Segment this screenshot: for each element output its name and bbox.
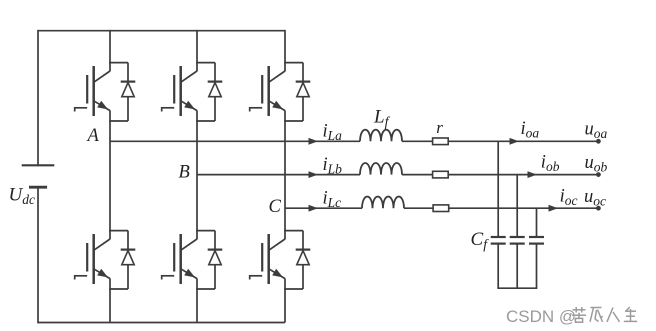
transistor VT4 (75, 230, 110, 284)
resistor r phase c (433, 205, 449, 212)
wire: phase b leg lower (bottom IGBT emitter to bottom bus) (196, 279, 198, 323)
DC source Udc positive plate (22, 164, 55, 166)
DC source Udc negative plate (29, 186, 47, 189)
node C / wire: phase c line from leg to inductor (285, 207, 362, 209)
wire: phase b leg middle (top IGBT emitter to bottom IGBT collector) (196, 111, 198, 232)
watermark 生 (624, 307, 637, 321)
capacitor Cf phase c (529, 236, 544, 238)
wire: phase b line inductor to resistor (402, 174, 449, 176)
freewheeling diode VD5 (284, 63, 310, 121)
current arrow i_oa (510, 138, 520, 145)
wire: phase a leg lower (bottom IGBT emitter to bottom bus) (109, 279, 111, 323)
transistor VT5 (250, 62, 285, 116)
wire: phase a line resistor to output terminal (448, 140, 598, 142)
transistor VT6 (162, 230, 197, 284)
current arrow i_Lb (309, 171, 319, 178)
freewheeling diode VD3 (196, 63, 222, 121)
wire: cap branch phase b lower lead (516, 244, 518, 289)
capacitor Cf phase a (491, 236, 506, 238)
wire: capacitor common bus (497, 287, 537, 289)
freewheeling diode VD2 (284, 231, 310, 289)
watermark 苦 (572, 307, 586, 322)
watermark 人 (607, 308, 620, 322)
output terminal dot u_oa (596, 139, 601, 144)
wire: phase a leg upper (bus to top IGBT) (109, 30, 111, 64)
inductor Lf phase c (362, 197, 404, 209)
output terminal dot u_ob (596, 172, 601, 177)
node A / wire: phase a line from leg to inductor (110, 140, 360, 142)
wire: left wire from source to bottom bus (37, 187, 39, 323)
current arrow i_Lc (309, 205, 319, 212)
freewheeling diode VD1 (109, 63, 135, 121)
node B / wire: phase b line from leg to inductor (197, 174, 360, 176)
inductor Lf phase a (360, 130, 402, 142)
wire: cap branch phase a lower lead (497, 244, 499, 289)
resistor r phase b (433, 171, 449, 178)
wire: cap branch phase b upper lead (516, 175, 518, 237)
wire: phase c line inductor to resistor (404, 207, 449, 209)
watermark 瓜 (590, 308, 603, 322)
wire: phase a line inductor to resistor (402, 140, 449, 142)
wire: phase c leg middle (top IGBT emitter to bottom IGBT collector) (284, 111, 286, 232)
capacitor Cf phase b (510, 236, 525, 238)
wire: phase a leg middle (top IGBT emitter to bottom IGBT collector) (109, 111, 111, 232)
wire: cap branch phase a upper lead (497, 141, 499, 237)
svg-text:B: B (179, 163, 190, 183)
freewheeling diode VD6 (196, 231, 222, 289)
svg-text:C: C (269, 197, 282, 217)
inductor Lf phase b (360, 163, 402, 175)
current arrow i_La (309, 138, 319, 145)
wire: cap branch phase c lower lead (536, 244, 538, 289)
svg-text:r: r (436, 118, 443, 137)
svg-text:A: A (86, 126, 100, 146)
current arrow i_ob (528, 171, 538, 178)
transistor VT1 (75, 62, 110, 116)
wire: phase b line resistor to output terminal (448, 174, 598, 176)
wire: left wire from top bus to source (37, 30, 39, 165)
freewheeling diode VD4 (109, 231, 135, 289)
current arrow i_oc (549, 205, 559, 212)
resistor r phase a (433, 138, 449, 145)
wire: phase c leg upper (bus to top IGBT) (284, 30, 286, 64)
wire: phase c line resistor to output terminal (449, 207, 599, 209)
output terminal dot u_oc (596, 206, 601, 211)
wire: phase b leg upper (bus to top IGBT) (196, 30, 198, 64)
transistor VT2 (250, 230, 285, 284)
transistor VT3 (162, 62, 197, 116)
svg-text:CSDN @: CSDN @ (506, 307, 576, 326)
wire: bottom DC bus (38, 322, 285, 324)
wire: cap branch phase c upper lead (536, 208, 538, 237)
wire: top DC bus (38, 30, 285, 32)
wire: phase c leg lower (bottom IGBT emitter to bottom bus) (284, 279, 286, 323)
